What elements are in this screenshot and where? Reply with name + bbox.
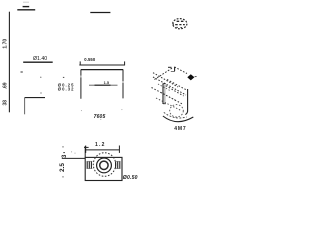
svg-text:1.5: 1.5 — [104, 80, 110, 85]
shaft slot line — [89, 84, 118, 86]
svg-text:Ø0.32: Ø0.32 — [58, 87, 75, 92]
front view right edge gap shading — [122, 81, 124, 83]
isometric bottom dotted edge — [156, 98, 181, 111]
bottom view left dimension line — [62, 157, 85, 159]
top-left dimension line — [17, 9, 35, 11]
front view width dimension line — [79, 61, 125, 65]
leader dot — [40, 77, 41, 78]
isometric front-top dotted edge — [153, 77, 186, 95]
svg-text:Ø0.50: Ø0.50 — [123, 175, 138, 181]
left leader dash — [63, 76, 64, 78]
svg-text:.69: .69 — [3, 82, 9, 89]
top tick of height dim — [84, 146, 89, 148]
front view rectangle top edge — [81, 69, 123, 71]
corner leader dot — [40, 92, 41, 93]
svg-text:4M7: 4M7 — [174, 126, 186, 132]
front view left edge gap shading — [80, 76, 82, 78]
dashed circle (body diameter) — [93, 153, 115, 177]
left thread hatch — [87, 161, 93, 169]
dimension dots — [62, 146, 63, 147]
svg-text:38: 38 — [3, 100, 9, 106]
svg-text:2.5: 2.5 — [59, 163, 66, 172]
shaft ring around hole — [100, 161, 108, 169]
isometric right-top dotted edge — [167, 80, 188, 91]
diameter dimension line — [23, 61, 53, 63]
top-right dimension line — [90, 12, 110, 14]
isometric lower dotted edge — [152, 88, 183, 104]
top view ellipse (shaft end) — [173, 19, 187, 29]
isometric face fill dashes — [158, 84, 170, 91]
black arrow marker — [187, 74, 194, 80]
lower-left corner outline — [25, 98, 45, 115]
bushing dashed ellipse — [170, 105, 184, 117]
front view left edge — [80, 70, 82, 99]
top-left dimension text dash — [23, 6, 30, 8]
shaft slot line dark center — [95, 84, 111, 86]
arrow tail dash — [195, 76, 197, 78]
right thread hatch — [115, 161, 120, 169]
svg-text:Ø1.40: Ø1.40 — [33, 56, 47, 62]
isometric body left edge — [163, 83, 166, 104]
bushing mid dashed arc — [164, 112, 187, 118]
isometric back-right dotted edge — [175, 67, 188, 74]
svg-text:1.70: 1.70 — [3, 39, 9, 49]
bottom view body rectangle — [85, 157, 122, 180]
bottom view: width dimension line — [86, 146, 120, 153]
faint upper dash — [23, 1, 29, 3]
bushing bottom arc — [163, 116, 193, 122]
isometric right edge with hook — [185, 89, 187, 115]
svg-text:7605: 7605 — [94, 114, 106, 120]
leader dash below — [21, 71, 23, 73]
isometric mid dotted edge — [166, 86, 184, 96]
isometric view: back-left dotted edge — [154, 68, 173, 80]
isometric top-face front dotted edge — [153, 73, 178, 87]
svg-text:0.550: 0.550 — [84, 57, 96, 62]
small dash above rotated 3 — [63, 152, 65, 154]
bushing outer circle — [97, 158, 112, 173]
isometric shaft slot marks — [168, 67, 175, 72]
faint dots — [81, 110, 82, 111]
svg-text:1.2: 1.2 — [95, 142, 106, 148]
left extension line above body — [84, 146, 86, 157]
left vertical dimension line — [8, 12, 10, 113]
front view right edge — [122, 70, 124, 99]
